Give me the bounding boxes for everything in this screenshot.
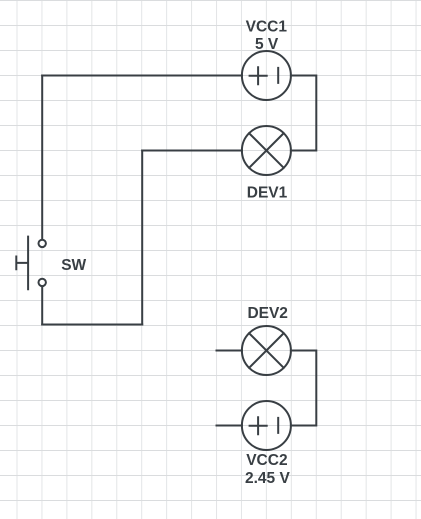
label VCC1: [246, 19, 288, 36]
svg-text:DEV2: DEV2: [247, 305, 288, 322]
label VCC2: [246, 452, 287, 469]
wire middle vertical segment: [141, 151, 143, 325]
voltage source VCC1: [242, 51, 291, 100]
wire SW top terminal drop from top node: [41, 76, 43, 239]
wire DEV2 left stub: [217, 350, 242, 352]
svg-text:VCC2: VCC2: [246, 452, 287, 469]
svg-text:SW: SW: [61, 257, 86, 274]
label DEV1: [247, 185, 288, 202]
label DEV2: [247, 305, 288, 322]
svg-text:VCC1: VCC1: [246, 19, 288, 36]
wire DEV1 left to middle vertical: [142, 150, 242, 152]
wire VCC1 right to DEV1 right (right vertical loop): [291, 76, 316, 151]
svg-text:DEV1: DEV1: [247, 185, 288, 202]
wire DEV2 right to VCC2 right (right vertical loop): [291, 351, 316, 426]
lamp DEV2: [242, 326, 291, 375]
value 5 V: [255, 36, 279, 53]
wire bottom horizontal to SW: [42, 324, 142, 326]
value 2.45 V: [245, 470, 290, 487]
wire VCC2 left stub: [217, 425, 242, 427]
svg-text:2.45 V: 2.45 V: [245, 470, 290, 487]
lamp DEV1: [242, 126, 291, 175]
wire top horizontal node from SW top to VCC1 left: [42, 75, 242, 77]
svg-text:5 V: 5 V: [255, 36, 279, 53]
pushbutton SW: [16, 237, 46, 290]
label SW: [61, 257, 86, 274]
voltage source VCC2: [242, 401, 291, 450]
wire SW bottom terminal riser: [41, 287, 43, 324]
